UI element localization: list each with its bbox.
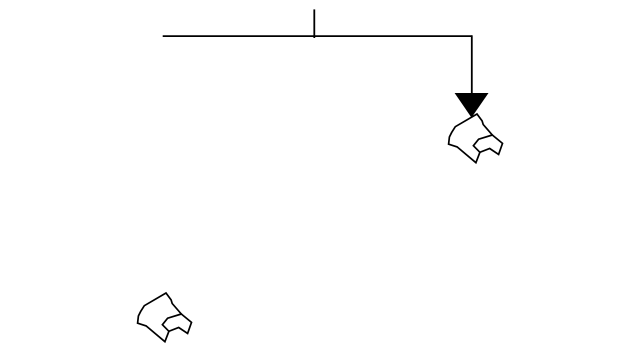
node: rock image (bottom left) bbox=[138, 293, 192, 342]
wire: horizontal rail bbox=[163, 35, 472, 37]
node: rock image (top right) bbox=[449, 114, 503, 163]
arrowhead bbox=[455, 93, 489, 118]
wire: vertical drop to arrowhead bbox=[471, 35, 473, 94]
wire: vertical stub above rail bbox=[313, 9, 315, 38]
